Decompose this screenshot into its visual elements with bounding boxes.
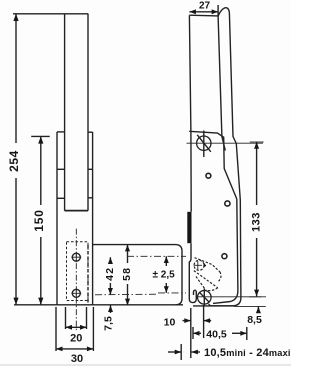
dim 150: [31, 135, 50, 137]
dim 254: [15, 14, 17, 143]
plate hole lower: [72, 289, 80, 297]
svg-text:40,5: 40,5: [206, 329, 227, 341]
svg-text:10,5mini - 24maxi: 10,5mini - 24maxi: [204, 347, 291, 359]
svg-text:27: 27: [199, 1, 211, 12]
svg-text:150: 150: [32, 209, 46, 231]
svg-text:20: 20: [70, 333, 82, 345]
svg-text:8,5: 8,5: [247, 314, 262, 326]
guide channel right wall: [92, 132, 94, 305]
svg-text:30: 30: [71, 353, 83, 365]
small hole a: [206, 173, 211, 178]
58: [125, 245, 130, 252]
svg-text:133: 133: [251, 212, 263, 232]
blade (handle upper): [218, 16, 225, 150]
10,5-24: [175, 350, 182, 355]
hook bottom extension: [193, 305, 234, 307]
rod (sliding bar): [64, 14, 66, 211]
small hole c: [222, 254, 227, 259]
8,5 up: [256, 307, 261, 314]
keeper lip: [189, 289, 196, 303]
150 top/bottom: [38, 136, 43, 143]
dim 40,5: [192, 327, 194, 339]
254 top/bottom: [13, 14, 18, 21]
30: [56, 347, 63, 352]
dim 27: [189, 11, 218, 13]
dim 42: [109, 257, 111, 264]
svg-text:7,5: 7,5: [102, 316, 114, 331]
boss top edge: [189, 131, 237, 199]
plate hole upper: [72, 253, 80, 261]
dim 10,5-24: [168, 351, 181, 353]
plate edge below buffer with jog: [189, 243, 191, 288]
dim 10: [183, 320, 191, 322]
133: [254, 142, 259, 149]
svg-text:58: 58: [121, 267, 133, 281]
roller: [198, 291, 212, 305]
20: [66, 325, 73, 330]
dim 20 extensions: [65, 307, 67, 329]
dim 8,5 stub: [257, 307, 259, 313]
guide bottom / long baseline: [14, 304, 183, 306]
arm (bracket): [93, 245, 182, 305]
lever lower arm: [213, 199, 238, 303]
dim 7,5: [110, 305, 112, 313]
scan edge smudge: [0, 364, 291, 366]
top extension line: [13, 13, 88, 15]
plate top edge: [189, 14, 218, 17]
hidden rod edge behind arm (dashed): [87, 245, 89, 304]
guide channel left wall: [56, 132, 58, 305]
mounting plate (dashed): [67, 242, 89, 301]
40,5: [193, 331, 200, 336]
rubber buffer (black): [187, 212, 191, 243]
pivot: [197, 136, 211, 150]
10: [184, 318, 191, 323]
pm2,5: [164, 256, 169, 263]
jaw cross: [194, 264, 202, 266]
svg-text:254: 254: [7, 150, 21, 172]
jaw (dashed open position): [194, 258, 221, 291]
svg-text:± 2,5: ± 2,5: [153, 270, 176, 281]
centre line horizontal left: [95, 293, 157, 296]
small hole b: [225, 201, 230, 206]
dim 133: [250, 141, 264, 143]
plate centre line: [75, 229, 77, 332]
svg-text:10: 10: [164, 317, 176, 329]
arrowheads: [13, 9, 261, 354]
7,5: [108, 305, 113, 312]
dim pm2,5 stubs: [165, 256, 167, 266]
dim 58: [127, 245, 129, 263]
plate left edge: [189, 15, 191, 212]
dim 30 extensions: [55, 307, 57, 351]
centre tick at 133 bottom: [249, 296, 261, 298]
27: [189, 9, 196, 14]
svg-text:42: 42: [104, 267, 116, 281]
upper hole centre line extended: [127, 255, 186, 257]
42: [108, 257, 113, 264]
